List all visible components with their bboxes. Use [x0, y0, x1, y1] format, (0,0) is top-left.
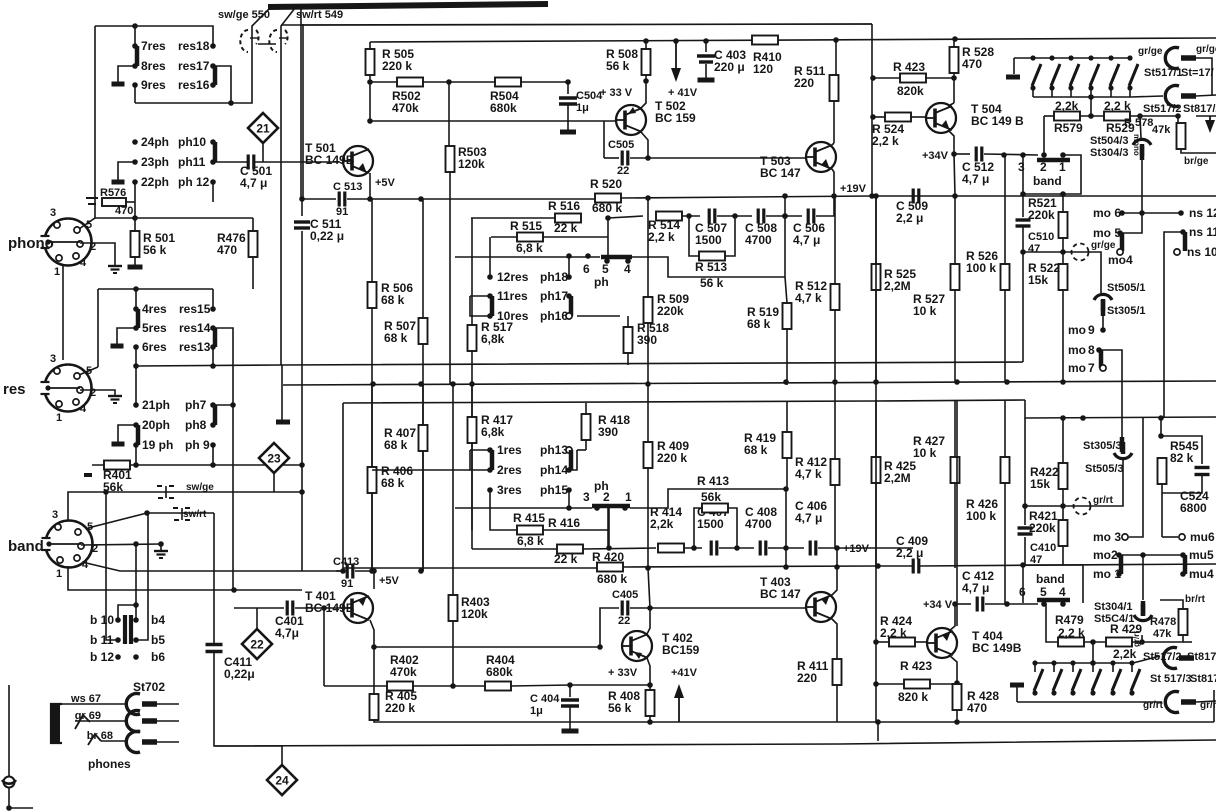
wire R509 top — [647, 218, 649, 297]
label St305/3 — [1083, 440, 1122, 452]
resistor R515 — [517, 233, 543, 242]
label 1 — [56, 568, 62, 580]
plug pin St305/3 — [1120, 437, 1125, 452]
resistor R414 — [658, 544, 684, 553]
svg-text:22: 22 — [618, 615, 630, 627]
wire R504 right — [521, 81, 568, 83]
svg-text:mo: mo — [1068, 323, 1086, 337]
wire 6res down to 21ph — [135, 347, 137, 405]
label res14 — [179, 321, 211, 335]
junction — [645, 155, 651, 161]
junction — [870, 75, 876, 81]
connector plug 549 (dashed) — [269, 30, 287, 52]
svg-text:2res: 2res — [497, 463, 522, 477]
label ph8 — [185, 418, 207, 432]
wire lower rail right — [919, 564, 1216, 566]
label R424 — [880, 614, 912, 640]
wire R422 bottom — [1062, 489, 1064, 506]
wire R476 top — [252, 218, 254, 231]
bus line A — [136, 362, 1023, 366]
capacitor C501 — [248, 155, 254, 170]
label R526 — [966, 249, 998, 275]
wire +41V top rail — [370, 38, 1216, 42]
wire C412 right — [985, 603, 1038, 605]
label band1 upper — [1059, 160, 1066, 174]
junction — [418, 381, 424, 387]
svg-text:St517/2: St517/2 — [1143, 103, 1182, 115]
svg-text:R576: R576 — [100, 187, 126, 199]
wire 7res stub — [134, 26, 136, 46]
label band4 lower — [1059, 585, 1066, 599]
label band6 lower — [1019, 585, 1026, 599]
label R509 — [657, 292, 689, 318]
label br/rt — [1185, 594, 1206, 605]
svg-text:ph17: ph17 — [540, 289, 568, 303]
svg-text:mo: mo — [1068, 361, 1086, 375]
label C508 — [745, 221, 777, 247]
svg-text:68 k: 68 k — [744, 443, 768, 457]
wire to St505/1 — [1096, 252, 1101, 293]
label R419 — [744, 431, 776, 457]
link 4res-5res — [136, 309, 141, 328]
wire R508 top — [645, 41, 647, 49]
label +19V — [840, 183, 867, 195]
svg-text:R 515: R 515 — [510, 219, 542, 233]
svg-text:mu6: mu6 — [1190, 530, 1215, 544]
wire R478 bottom — [1182, 635, 1184, 642]
wire +34V to C512 — [954, 153, 970, 155]
transistor T404 BC149B — [927, 628, 957, 658]
label R414 — [650, 505, 682, 531]
svg-text:2,2 k: 2,2 k — [648, 230, 675, 244]
junction — [1020, 191, 1026, 197]
wire left stub — [8, 685, 10, 777]
svg-text:4: 4 — [624, 262, 631, 276]
label 3 — [50, 207, 56, 219]
plug St517/2 lower — [1163, 648, 1194, 669]
svg-text:4700: 4700 — [745, 517, 772, 531]
label T504 — [971, 102, 1024, 128]
label 5res — [142, 321, 167, 335]
plug dashes R576 — [86, 198, 98, 204]
svg-text:R479: R479 — [1055, 613, 1084, 627]
svg-text:St305/3: St305/3 — [1083, 440, 1122, 452]
label R428 — [967, 689, 999, 715]
wire R423 lower right — [930, 683, 957, 685]
svg-text:8res: 8res — [141, 59, 166, 73]
svg-text:9: 9 — [1088, 323, 1095, 337]
label mo5 — [1093, 226, 1121, 240]
wire R519 chain link — [784, 196, 786, 277]
wire band pin1 row — [68, 566, 302, 590]
label T501 — [305, 141, 355, 167]
junction — [686, 213, 692, 219]
wire T403 emitter down — [832, 619, 837, 659]
junction — [873, 639, 879, 645]
junction — [418, 568, 424, 574]
label R408 — [608, 689, 640, 715]
wire C505 to T503 base — [630, 157, 806, 159]
junction ph17 — [566, 293, 572, 299]
svg-text:3: 3 — [50, 207, 56, 219]
resistor R407 — [419, 425, 428, 451]
label ns10 — [1187, 245, 1216, 259]
label R407 — [384, 426, 416, 452]
junction mu4 — [1180, 571, 1186, 577]
label R516 — [548, 199, 580, 213]
switch sw/ge (dashed) — [157, 486, 177, 498]
wire right col down — [875, 196, 877, 381]
svg-text:7res: 7res — [141, 39, 166, 53]
junction — [782, 193, 788, 199]
junction — [783, 379, 789, 385]
wire to St517/3 plug — [1133, 701, 1162, 703]
junction — [370, 381, 376, 387]
wire contact row upper — [455, 256, 600, 258]
svg-text:4: 4 — [80, 403, 87, 415]
label R525 — [884, 267, 916, 293]
label T403 — [760, 575, 801, 601]
svg-text:mu5: mu5 — [1189, 548, 1214, 562]
label 2 — [92, 543, 98, 555]
svg-text:St505/1: St505/1 — [1107, 282, 1146, 294]
transistor T403 BC147 — [806, 592, 836, 622]
capacitor C504 — [559, 98, 577, 104]
label gr/rt vert — [1132, 631, 1141, 647]
svg-text:47k: 47k — [1152, 124, 1171, 136]
switch stub 3 upper — [1070, 88, 1072, 97]
junction — [691, 545, 697, 551]
junction res15 — [210, 306, 216, 312]
label 7 — [1088, 361, 1095, 375]
svg-text:sw/rt: sw/rt — [183, 509, 207, 520]
svg-text:22 k: 22 k — [554, 552, 578, 566]
label 8 — [1088, 343, 1095, 357]
wire R576 right — [126, 201, 135, 203]
wire R579-R529 — [1080, 115, 1104, 117]
switch blade 2 upper — [1051, 64, 1060, 86]
plug St517/2 top — [1165, 86, 1196, 107]
junction — [834, 545, 840, 551]
junction res16 — [210, 82, 216, 88]
junction — [1020, 152, 1026, 158]
label R520 value — [592, 201, 622, 215]
wire to St517/2 — [1131, 96, 1163, 97]
wire plug out right — [1196, 95, 1216, 96]
junction ph14 — [566, 467, 572, 473]
label 2res — [497, 463, 522, 477]
wire busA right leg — [1022, 252, 1024, 362]
switch stub 5 lower — [1112, 663, 1114, 672]
junction — [645, 195, 651, 201]
svg-text:4: 4 — [1059, 585, 1066, 599]
wire T504 collector — [948, 103, 954, 106]
switch top contact 4 upper — [1088, 55, 1093, 60]
label R420 value — [597, 572, 627, 586]
junction band1 upper — [1060, 152, 1066, 158]
junction 11res — [487, 293, 493, 299]
junction mo2 — [1116, 552, 1122, 558]
wire R404 right — [511, 685, 650, 686]
label res18 — [178, 39, 210, 53]
svg-text:21: 21 — [256, 122, 270, 136]
wire +19V node down — [836, 548, 838, 567]
wire res17 right — [213, 66, 231, 103]
switch blade 5 upper — [1110, 64, 1119, 86]
wire 23ph to ground — [118, 162, 135, 180]
wire R423 right — [926, 77, 954, 79]
svg-text:gr/rt: gr/rt — [1132, 631, 1141, 647]
wire R516 left — [471, 217, 555, 219]
wire R515 node down — [607, 218, 609, 258]
res connector — [41, 365, 92, 412]
ground phono — [108, 266, 122, 273]
svg-text:68 k: 68 k — [381, 293, 405, 307]
label C524 — [1180, 489, 1209, 515]
resistor R410 — [752, 36, 778, 45]
label ws67 — [70, 693, 101, 705]
svg-text:R579: R579 — [1054, 121, 1083, 135]
junction res14 — [210, 325, 216, 331]
label St517/1 — [1144, 67, 1183, 79]
wire res15 stub — [212, 289, 214, 309]
wire 2res link — [470, 450, 490, 470]
link mu5-mu4 — [1183, 555, 1188, 574]
label phono — [8, 235, 54, 252]
junction 1res — [487, 447, 493, 453]
wire C410 bottom — [1024, 537, 1026, 565]
svg-text:mo: mo — [1068, 343, 1086, 357]
switch blade 3 upper — [1070, 64, 1079, 86]
svg-text:56 k: 56 k — [700, 276, 724, 290]
svg-text:21ph: 21ph — [142, 398, 170, 412]
svg-text:+ 33V: + 33V — [608, 667, 638, 679]
label R427 — [913, 434, 945, 460]
ground bar switch lower — [1010, 683, 1024, 688]
capacitor C411 — [206, 645, 223, 652]
wire diamond21 stub — [262, 143, 264, 162]
wire T401 base down — [323, 608, 325, 686]
wire C401 left — [234, 607, 284, 609]
wire C408-C406 — [768, 547, 804, 549]
contact bar ph lower — [592, 504, 630, 509]
wire mo3 up — [1129, 417, 1143, 537]
label R512 — [795, 279, 827, 305]
junction — [1004, 379, 1010, 385]
junction — [703, 38, 709, 44]
label ns11 — [1189, 225, 1216, 239]
svg-text:4,7 μ: 4,7 μ — [962, 172, 989, 186]
label R479 — [1055, 613, 1084, 627]
label C409 lower — [896, 534, 928, 560]
junction b5 — [133, 637, 139, 643]
wire diamond22 stub — [256, 608, 258, 629]
junction — [952, 601, 958, 607]
svg-text:100 k: 100 k — [966, 509, 996, 523]
transistor T502 BC159 — [616, 105, 646, 135]
wire C508-C506 — [766, 215, 802, 217]
svg-text:1: 1 — [54, 266, 60, 278]
resistor R512 — [831, 284, 840, 310]
resistor R401 — [104, 461, 130, 470]
junction 12res — [487, 274, 493, 280]
wire mo5 link — [1120, 213, 1142, 233]
svg-text:6,8 k: 6,8 k — [517, 534, 544, 548]
wire 5res to ground — [117, 328, 136, 344]
wire R579 to band2 — [1043, 116, 1045, 155]
wire lower contact2 down — [608, 508, 610, 548]
label ph16 — [540, 309, 568, 323]
wire R421 bottom — [1062, 546, 1064, 565]
wire R421 top — [1062, 506, 1064, 520]
switch stub 3 lower — [1072, 663, 1074, 672]
svg-text:10 k: 10 k — [913, 446, 937, 460]
label St817/3 — [1190, 673, 1216, 685]
svg-text:1res: 1res — [497, 443, 522, 457]
label gr/rt bottom — [1143, 700, 1164, 711]
switch stub 5 upper — [1110, 88, 1112, 97]
svg-text:C 513: C 513 — [333, 181, 362, 193]
wire to St517/2 plug — [1133, 656, 1160, 663]
capacitor C505 — [622, 151, 628, 166]
label 2 lower — [603, 490, 610, 504]
wire top to C511 — [300, 9, 302, 199]
wire ws67 out — [157, 703, 179, 705]
label res13 — [179, 340, 211, 354]
junction C513 line — [299, 196, 305, 202]
label C510 — [1028, 231, 1054, 255]
wire R409 node down — [648, 568, 650, 608]
resistor R514 — [656, 212, 682, 221]
junction — [132, 23, 138, 29]
link 20ph-19ph — [136, 425, 141, 445]
svg-text:St517/1: St517/1 — [1144, 67, 1183, 79]
wire +19V far right — [955, 195, 1216, 197]
switch stub 2 upper — [1051, 88, 1053, 97]
wire R507 bottom — [422, 344, 424, 571]
wire right col lower — [875, 381, 877, 722]
svg-text:24: 24 — [275, 774, 289, 788]
wire band box lower — [1023, 565, 1083, 603]
ground bar C504 — [560, 130, 576, 135]
wire top res18 — [95, 26, 213, 46]
svg-text:res16: res16 — [178, 78, 210, 92]
svg-text:3res: 3res — [497, 483, 522, 497]
wire R545 top — [1160, 418, 1162, 436]
junction 2res — [487, 467, 493, 473]
label mo 9 — [1068, 323, 1086, 337]
svg-text:R 420: R 420 — [592, 550, 624, 564]
svg-text:5: 5 — [87, 521, 93, 533]
capacitor C404 — [561, 700, 579, 706]
junction — [873, 379, 879, 385]
junction — [645, 565, 651, 571]
label 22ph — [141, 175, 169, 189]
wire 20ph ground — [118, 425, 136, 442]
switch bottom contact 3 lower — [1070, 690, 1075, 695]
wire band box lower left — [1022, 565, 1024, 603]
svg-text:15k: 15k — [1030, 477, 1050, 491]
junction ns12 — [1178, 210, 1184, 216]
plug St505/1 — [1094, 294, 1112, 311]
junction — [566, 253, 572, 259]
junction — [446, 79, 452, 85]
junction — [6, 805, 12, 811]
label R524 — [872, 122, 904, 148]
switch blade 2 lower — [1053, 669, 1062, 691]
label R413 value — [701, 490, 721, 504]
label R409 — [657, 439, 689, 465]
svg-text:gr/rt: gr/rt — [1093, 495, 1114, 506]
junction — [103, 489, 109, 495]
wire plug3 out — [1196, 701, 1216, 702]
wire R522 top — [1062, 252, 1064, 264]
junction — [1060, 191, 1066, 197]
switch top contact 4 lower — [1090, 660, 1095, 665]
label mu4 — [1189, 567, 1214, 581]
junction — [954, 719, 960, 725]
label R522 — [1028, 261, 1060, 287]
label R413 — [697, 474, 729, 488]
switch top contact 6 upper — [1127, 55, 1132, 60]
label R426 — [966, 497, 998, 523]
ground bar 23ph — [112, 180, 125, 185]
svg-text:band: band — [8, 538, 44, 555]
junction res13 — [210, 344, 216, 350]
label R578 — [1124, 117, 1153, 129]
label 3 — [52, 509, 58, 521]
junction band2 upper — [1041, 152, 1047, 158]
wire T501 emitter — [369, 173, 371, 199]
junction b11 — [115, 637, 121, 643]
junction — [954, 680, 960, 686]
wire busA ground leg — [281, 365, 283, 420]
svg-text:ph16: ph16 — [540, 309, 568, 323]
wire band pin3 up — [68, 492, 106, 521]
capacitor C506 — [808, 209, 814, 224]
switch top contact 5 upper — [1108, 55, 1113, 60]
svg-text:C405: C405 — [612, 589, 638, 601]
wire R413 bracket — [694, 508, 737, 548]
label sw/rt — [183, 509, 207, 520]
wire bottom bus — [215, 740, 1216, 746]
wire band5 to R479 — [1046, 604, 1057, 642]
junction lower ph1 — [622, 505, 628, 511]
label St504/3 — [1090, 135, 1129, 147]
wire R514-C507 — [682, 215, 700, 217]
svg-text:680 k: 680 k — [597, 572, 627, 586]
label St517/2 upper — [1143, 103, 1182, 115]
wire to R502 — [370, 81, 397, 83]
svg-text:390: 390 — [598, 425, 618, 439]
resistor R504 — [495, 78, 521, 87]
svg-text:24ph: 24ph — [141, 135, 169, 149]
wire T502 emitter up — [641, 81, 646, 108]
label R517 — [481, 320, 513, 346]
label 2 — [90, 241, 96, 253]
switch blade 1 lower — [1034, 669, 1043, 691]
junction — [951, 75, 957, 81]
wire T404 collector — [949, 655, 957, 683]
wire R511 top — [835, 40, 837, 77]
label 4 — [624, 262, 631, 276]
svg-text:0,22 μ: 0,22 μ — [310, 229, 344, 243]
svg-text:2,2M: 2,2M — [884, 279, 911, 293]
svg-text:12res: 12res — [497, 270, 529, 284]
label R529 value — [1104, 99, 1131, 113]
svg-text:6,8k: 6,8k — [481, 425, 505, 439]
svg-text:4,7 μ: 4,7 μ — [962, 581, 989, 595]
